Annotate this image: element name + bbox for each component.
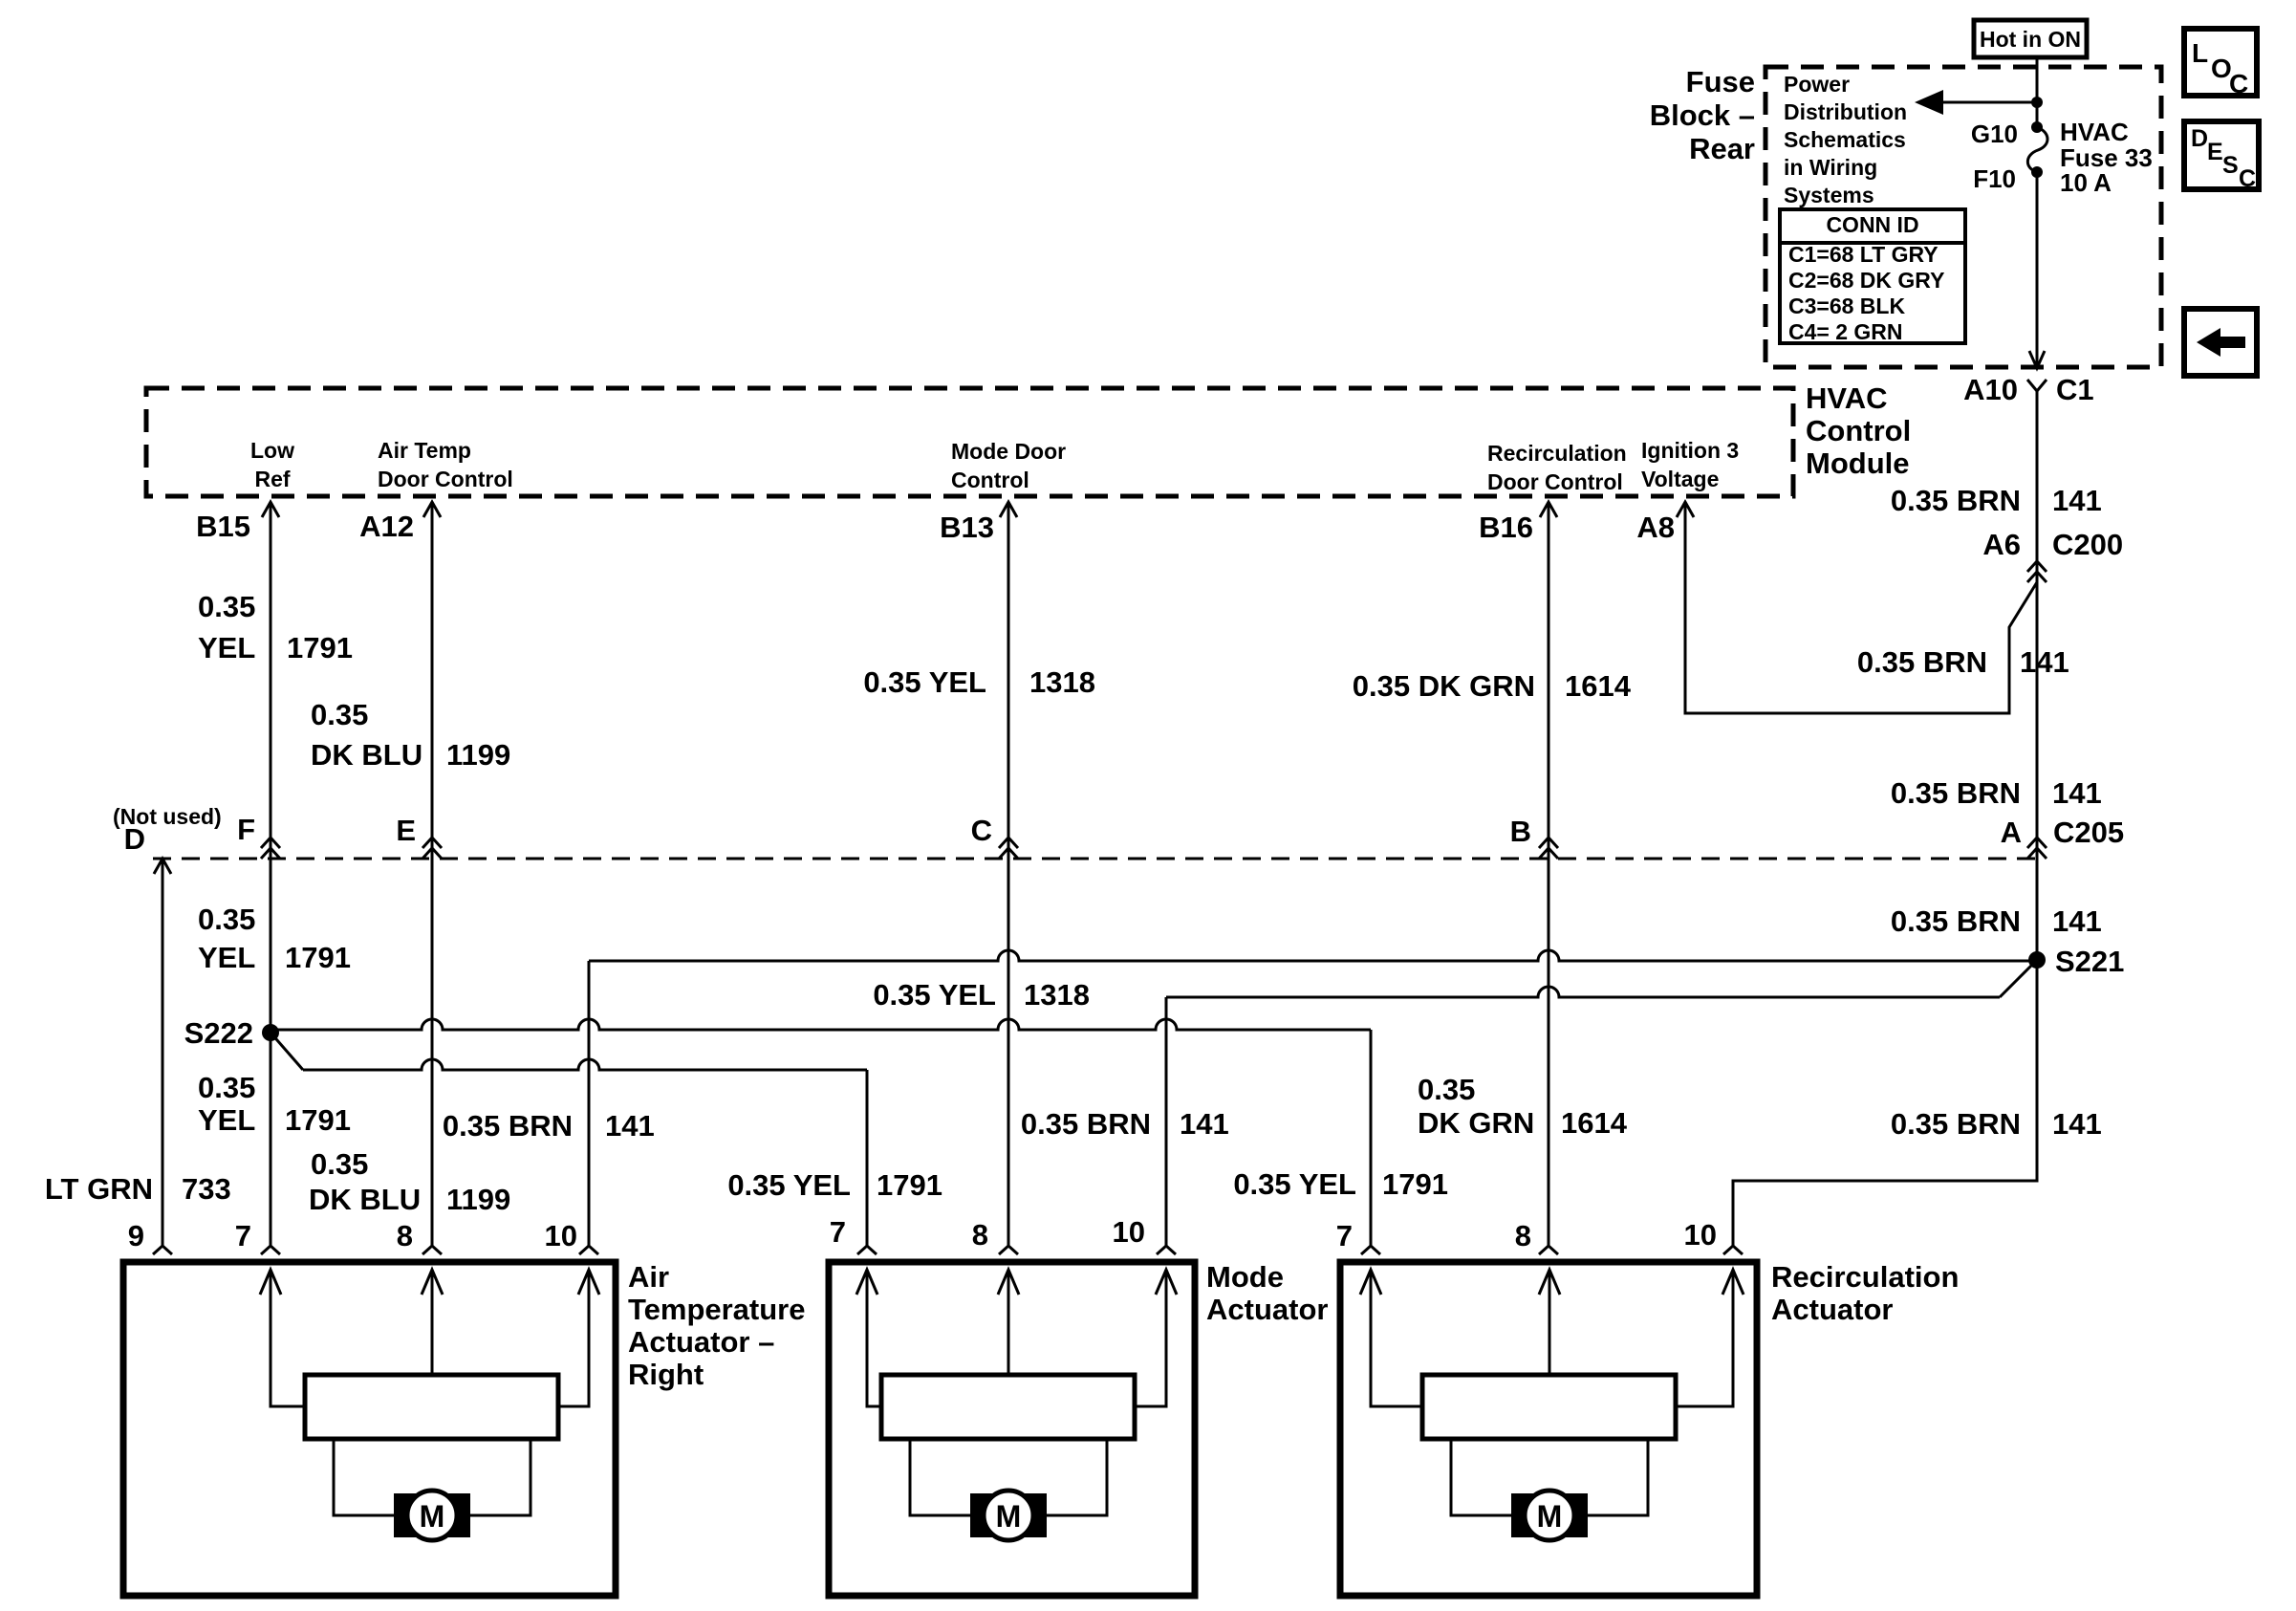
svg-text:9: 9 [128, 1219, 144, 1252]
LOC button [2184, 29, 2257, 98]
wire from Hot in ON into fuse block [2036, 57, 2039, 127]
svg-text:C: C [2229, 69, 2248, 98]
svg-text:Systems: Systems [1784, 183, 1874, 207]
wire DK BLU 1199 from A12 to actuator pin 8 [422, 502, 442, 1254]
svg-text:0.35 YEL: 0.35 YEL [1233, 1167, 1356, 1201]
svg-text:Mode Door: Mode Door [951, 439, 1066, 464]
HVAC Control Module dashed box [146, 388, 1793, 496]
svg-text:0.35 BRN: 0.35 BRN [1891, 484, 2021, 517]
pin 7 internal wire [260, 1270, 305, 1406]
svg-text:10: 10 [1684, 1218, 1717, 1252]
svg-text:8: 8 [1515, 1219, 1531, 1252]
svg-text:141: 141 [2052, 1107, 2102, 1141]
svg-text:F: F [237, 813, 255, 846]
wire BRN 141 from C1 down to junction S221 [2036, 391, 2039, 960]
pin 8 internal wire [998, 1270, 1019, 1375]
actuator internal resistor block [881, 1375, 1135, 1439]
svg-text:B15: B15 [196, 510, 250, 543]
svg-text:HVAC: HVAC [2060, 118, 2129, 146]
svg-text:1791: 1791 [1382, 1167, 1448, 1201]
label 0.35 YEL 1791 below S222 [198, 1071, 351, 1137]
svg-text:CONN ID: CONN ID [1826, 212, 1918, 237]
svg-text:(Not used): (Not used) [113, 804, 222, 829]
svg-text:141: 141 [2052, 484, 2102, 517]
junction S221 dot [2028, 951, 2046, 969]
svg-text:YEL: YEL [198, 631, 255, 664]
svg-text:0.35 DK GRN: 0.35 DK GRN [1353, 669, 1535, 703]
label 0.35 YEL 1791 on mode pin 7 wire [727, 1168, 942, 1202]
svg-text:10 A: 10 A [2060, 168, 2112, 197]
svg-text:DK BLU: DK BLU [311, 738, 422, 772]
svg-text:Ignition 3: Ignition 3 [1641, 438, 1739, 463]
svg-text:M: M [996, 1499, 1022, 1534]
svg-text:M: M [1537, 1499, 1563, 1534]
svg-text:141: 141 [605, 1109, 655, 1143]
svg-text:B16: B16 [1479, 511, 1533, 544]
connector C205 cavity C symbol [999, 838, 1018, 848]
svg-text:A8: A8 [1636, 511, 1675, 544]
HVAC Fuse 33 10 A label [2060, 118, 2153, 197]
actuator box outline [1340, 1262, 1757, 1596]
svg-text:Voltage: Voltage [1641, 467, 1719, 491]
svg-text:0.35 YEL: 0.35 YEL [873, 978, 996, 1012]
svg-text:0.35 BRN: 0.35 BRN [1021, 1107, 1151, 1141]
svg-text:Fuse: Fuse [1686, 65, 1755, 98]
svg-text:Recirculation: Recirculation [1771, 1260, 1959, 1294]
svg-text:1791: 1791 [287, 631, 353, 664]
pin 10 internal wire [1135, 1270, 1177, 1406]
svg-text:C4= 2 GRN: C4= 2 GRN [1788, 319, 1903, 344]
svg-text:1614: 1614 [1565, 669, 1632, 703]
pin 7 internal wire [1360, 1270, 1422, 1406]
pin 9 stub (not used) [0, 0, 1, 1]
label 0.35 DK GRN 1614 below C205 on B16 wire [1418, 1073, 1628, 1140]
svg-text:0.35 BRN: 0.35 BRN [1891, 776, 2021, 810]
svg-text:C: C [2239, 165, 2256, 192]
svg-text:C200: C200 [2052, 528, 2123, 561]
svg-text:0.35 BRN: 0.35 BRN [1891, 904, 2021, 938]
svg-text:Air Temp: Air Temp [378, 438, 471, 463]
svg-text:1199: 1199 [446, 1183, 510, 1216]
svg-text:141: 141 [2052, 776, 2102, 810]
svg-text:YEL: YEL [198, 1103, 255, 1137]
actuator box outline [829, 1262, 1195, 1596]
svg-text:8: 8 [972, 1218, 988, 1252]
svg-text:A6: A6 [1982, 528, 2021, 561]
svg-text:Control: Control [1806, 414, 1911, 447]
svg-text:C1=68 LT GRY: C1=68 LT GRY [1788, 242, 1939, 267]
svg-text:Module: Module [1806, 446, 1910, 480]
svg-text:Distribution: Distribution [1784, 99, 1907, 124]
label 0.35 BRN 141 above S221 [1891, 904, 2102, 938]
label 0.35 BRN 141 above C200 [1891, 484, 2102, 517]
wire YEL 1791 from S222 to recirculation actuator pin 7 [271, 1019, 1380, 1254]
svg-text:Right: Right [628, 1358, 704, 1391]
svg-text:Power: Power [1784, 72, 1850, 97]
pin 8 internal wire [1539, 1270, 1560, 1375]
svg-text:Low: Low [250, 438, 294, 463]
svg-text:7: 7 [1336, 1219, 1353, 1252]
svg-text:G10: G10 [1971, 120, 2018, 148]
svg-text:1614: 1614 [1561, 1106, 1628, 1140]
label 0.35 DK BLU 1199 on A12 wire [311, 698, 510, 772]
svg-text:Door Control: Door Control [378, 467, 513, 491]
svg-text:Schematics: Schematics [1784, 127, 1906, 152]
pin Ignition 3 Voltage description [1641, 438, 1739, 491]
fuse F33 element symbol [2027, 127, 2047, 172]
Fuse Block - Rear label [1650, 65, 1755, 165]
svg-text:Control: Control [951, 468, 1029, 492]
actuator label [1771, 1260, 1959, 1326]
svg-text:0.35 YEL: 0.35 YEL [863, 665, 986, 699]
motor M [334, 1439, 531, 1540]
Fuse Block - Rear dashed outline [1765, 67, 2161, 367]
connector C205 cavity A symbol [2027, 838, 2047, 848]
svg-text:1318: 1318 [1024, 978, 1090, 1012]
wire DK GRN 1614 from B16 to recirculation actuator pin 8 [1539, 502, 1558, 1254]
junction S222 dot [262, 1024, 279, 1041]
svg-text:733: 733 [182, 1172, 231, 1206]
svg-text:F10: F10 [1973, 164, 2016, 193]
svg-text:A: A [2001, 816, 2022, 849]
svg-text:0.35: 0.35 [1418, 1073, 1475, 1106]
CONN ID table [1780, 209, 1965, 344]
pin Recirculation Door Control description [1487, 441, 1627, 494]
svg-text:DK GRN: DK GRN [1418, 1106, 1534, 1140]
actuator internal resistor block [1422, 1375, 1676, 1439]
Hot in ON callout box [1974, 20, 2087, 57]
connector C205 cavity F symbol [261, 838, 280, 848]
wire BRN 141 from S221 to mode actuator pin 10 [1157, 965, 2032, 1254]
svg-text:1199: 1199 [446, 738, 510, 772]
svg-text:7: 7 [830, 1215, 846, 1249]
svg-text:Actuator –: Actuator – [628, 1325, 774, 1359]
actuator label [1206, 1260, 1328, 1326]
svg-text:1791: 1791 [877, 1168, 942, 1202]
motor M [910, 1439, 1107, 1540]
svg-text:Hot in ON: Hot in ON [1980, 27, 2081, 52]
svg-text:8: 8 [397, 1219, 413, 1252]
wire 141 from fuse F10 to connector C1 [2029, 172, 2045, 368]
svg-text:B: B [1510, 815, 1531, 848]
label 0.35 BRN 141 on A8 branch [1857, 645, 2069, 679]
terminal G10 dot [2031, 121, 2043, 133]
label 0.35 BRN 141 on S221 drop [1891, 1107, 2102, 1141]
svg-text:0.35 YEL: 0.35 YEL [727, 1168, 851, 1202]
label 0.35 BRN 141 on air temp pin 10 wire [443, 1109, 655, 1143]
svg-text:0.35: 0.35 [198, 590, 255, 623]
HVAC Control Module label [1806, 381, 1911, 480]
svg-text:C2=68 DK GRY: C2=68 DK GRY [1788, 268, 1944, 293]
label 0.35 YEL 1791 on B15 wire [198, 590, 353, 664]
svg-text:1791: 1791 [285, 941, 351, 974]
connector C205 cavity E symbol [422, 838, 442, 848]
svg-text:YEL: YEL [198, 941, 255, 974]
Power Distribution Schematics note [1784, 72, 1907, 207]
connector C200 cavity A6 symbol [2027, 561, 2047, 572]
actuator label [628, 1260, 806, 1391]
back arrow button [2184, 309, 2257, 376]
pin 10 internal wire [1676, 1270, 1744, 1406]
svg-text:C205: C205 [2053, 816, 2124, 849]
wire BRN 141 from S221 to air temp actuator pin 10 [579, 950, 2037, 1254]
svg-text:Ref: Ref [254, 467, 290, 491]
arrow to Power Distribution Schematics [1915, 90, 2037, 115]
svg-text:Actuator: Actuator [1771, 1293, 1893, 1326]
label 0.35 BRN 141 below C200 [1891, 776, 2102, 810]
svg-text:Mode: Mode [1206, 1260, 1284, 1294]
junction dot on hot feed [2031, 97, 2043, 108]
label 0.35 BRN 141 on mode pin 10 wire [1021, 1107, 1229, 1141]
svg-text:0.35: 0.35 [311, 1147, 368, 1181]
connector C205 cavity B symbol [1539, 838, 1558, 848]
svg-text:141: 141 [2052, 904, 2102, 938]
wire BRN 141 branch from C200 to A8 Ignition 3 Voltage [1677, 502, 2037, 713]
label 0.35 DK BLU 1199 below C205 on A12 wire [309, 1147, 510, 1216]
label 0.35 YEL 1791 below C205 on B15 wire [198, 903, 351, 974]
label LT GRN 733 [45, 1172, 231, 1206]
svg-text:Temperature: Temperature [628, 1293, 806, 1326]
wire LT GRN 733 from C205 D to actuator pin 9 [153, 859, 172, 1254]
label 0.35 YEL 1318 on mode door wire [873, 978, 1090, 1012]
pin 8 internal wire [422, 1270, 443, 1375]
svg-text:LT GRN: LT GRN [45, 1172, 153, 1206]
wire YEL 1791 from S222 to mode actuator pin 7 [271, 1033, 877, 1254]
svg-text:Block –: Block – [1650, 98, 1755, 132]
pin Low Ref description [250, 438, 294, 491]
svg-text:in Wiring: in Wiring [1784, 155, 1877, 180]
terminal F10 dot [2031, 166, 2043, 178]
svg-text:1791: 1791 [285, 1103, 351, 1137]
svg-text:M: M [420, 1499, 445, 1534]
svg-text:B13: B13 [940, 511, 994, 544]
pin Mode Door Control description [951, 439, 1066, 492]
svg-text:10: 10 [545, 1219, 577, 1252]
svg-text:7: 7 [235, 1219, 251, 1252]
wire BRN 141 from S221 to recirculation actuator pin 10 [1723, 960, 2037, 1254]
svg-text:Actuator: Actuator [1206, 1293, 1328, 1326]
svg-text:0.35 BRN: 0.35 BRN [443, 1109, 573, 1143]
pin 7 internal wire [856, 1270, 881, 1406]
svg-text:0.35: 0.35 [198, 1071, 255, 1104]
svg-text:0.35: 0.35 [311, 698, 368, 731]
label 0.35 YEL 1791 on recirculation pin 7 wire [1233, 1167, 1448, 1201]
svg-text:0.35 BRN: 0.35 BRN [1891, 1107, 2021, 1141]
svg-text:S222: S222 [184, 1016, 253, 1050]
svg-text:S: S [2222, 152, 2239, 179]
label 0.35 DK GRN 1614 on B16 wire [1353, 669, 1632, 703]
svg-text:L: L [2192, 38, 2208, 68]
svg-text:C3=68 BLK: C3=68 BLK [1788, 294, 1905, 318]
svg-text:A10: A10 [1963, 373, 2018, 406]
svg-text:0.35 BRN: 0.35 BRN [1857, 645, 1987, 679]
svg-text:Rear: Rear [1689, 132, 1755, 165]
svg-text:C: C [971, 814, 992, 847]
svg-text:HVAC: HVAC [1806, 381, 1888, 415]
actuator internal resistor block [305, 1375, 558, 1439]
svg-text:A12: A12 [359, 510, 414, 543]
DESC button [2184, 121, 2259, 192]
svg-text:Air: Air [628, 1260, 669, 1294]
wire YEL 1318 from B13 to mode actuator pin 8 [999, 502, 1018, 1254]
svg-text:DK BLU: DK BLU [309, 1183, 421, 1216]
svg-text:Recirculation: Recirculation [1487, 441, 1627, 466]
svg-text:141: 141 [2020, 645, 2069, 679]
svg-text:10: 10 [1113, 1215, 1145, 1249]
svg-text:1318: 1318 [1029, 665, 1095, 699]
svg-text:141: 141 [1180, 1107, 1229, 1141]
svg-text:0.35: 0.35 [198, 903, 255, 936]
actuator box outline [123, 1262, 616, 1596]
connector C1 fork [2027, 380, 2047, 391]
motor M [1451, 1439, 1648, 1540]
wire YEL 1791 from B15 to S222 to actuator pin 7 [261, 502, 280, 1254]
svg-text:D: D [2191, 125, 2208, 152]
pin 10 internal wire [558, 1270, 599, 1406]
svg-text:E: E [2207, 139, 2223, 165]
svg-text:S221: S221 [2055, 945, 2124, 978]
connector C205 dashed line [153, 858, 2037, 860]
svg-text:C1: C1 [2056, 373, 2094, 406]
label 0.35 YEL 1318 on B13 wire [863, 665, 1095, 699]
svg-text:Door Control: Door Control [1487, 469, 1623, 494]
svg-text:E: E [396, 814, 416, 847]
pin Air Temp Door Control description [378, 438, 513, 491]
